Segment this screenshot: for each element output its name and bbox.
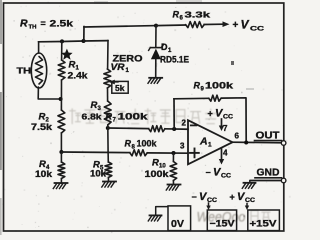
svg-text:100k: 100k [145,169,170,179]
resistor R3 [104,101,111,125]
wire D1-junction to R6 [156,24,186,27]
svg-text:2.4k: 2.4k [68,71,89,81]
terminal box -15V [207,210,236,231]
ground 0V [150,214,162,216]
svg-text:VR: VR [111,62,125,73]
plus sign pin3 [190,152,199,154]
wire R10 to ground [172,181,174,185]
svg-text:6.8k: 6.8k [82,112,102,122]
wire R7 left [108,127,149,130]
minus sign pin2 [191,124,197,126]
wire R6 to arrow [204,23,222,25]
op-amp A1 [188,120,233,164]
svg-text:TH: TH [17,66,32,76]
svg-text:+: + [233,20,239,31]
zener diode D1 [151,49,161,60]
thermistor TH [31,53,46,88]
resistor R4 [58,162,65,179]
svg-text:R: R [91,100,98,111]
terminal box +15V [248,210,280,231]
wire D1 to ground [155,59,157,77]
svg-text:2: 2 [182,119,187,128]
wire R7 to pin2 [165,128,188,130]
wire R4 to ground [60,179,62,183]
watermark bottom [197,209,271,225]
resistor R8 [130,150,148,156]
wire pin3 left [61,151,129,154]
svg-text:CC: CC [250,25,264,32]
node step junction [82,39,86,43]
svg-text:R: R [106,112,113,122]
wire R5 to ground [107,178,109,182]
wire R1 to R2 [60,80,62,110]
resistor R6 [186,22,205,28]
wire R5 top lead [107,152,109,162]
svg-text:R: R [125,139,132,149]
wire thermistor bottom [38,87,61,99]
svg-text:WeeQoo: WeeQoo [197,209,246,225]
svg-text:RD5.1E: RD5.1E [160,55,189,65]
wire R9 top right [221,98,246,143]
svg-text:3: 3 [180,142,185,151]
VR1 wiper arrow [112,81,119,83]
wire upper horizontal to D1 [84,26,156,27]
svg-text:TH: TH [29,24,37,30]
wire VR1 to R3 [107,88,109,101]
svg-text:0V: 0V [171,219,184,230]
svg-text:+: + [208,109,213,119]
svg-text:R: R [39,112,46,123]
svg-text:V: V [241,17,250,31]
VR1 5k box [112,81,128,93]
svg-text:2.5k: 2.5k [50,19,75,29]
svg-text:A: A [199,136,208,148]
node R3-R7 junction [106,126,110,130]
ground R10 [168,184,181,186]
svg-text:5k: 5k [115,83,125,93]
pin 7 arrow [221,119,223,126]
node output junction [244,141,248,145]
wire R9 up [173,99,175,129]
svg-text:+: + [230,192,235,202]
resistor R9 [209,95,221,101]
ground D1 [149,77,162,79]
terminal box 0V [168,206,191,231]
wire R2 to junction [60,133,62,152]
node R1 top junction [60,39,64,43]
resistor R5 [105,162,112,178]
svg-text:1: 1 [208,142,212,149]
wire D1 top lead [155,26,157,47]
resistor R2 [58,110,65,133]
svg-text:6: 6 [235,132,240,141]
svg-text:100k: 100k [205,81,234,91]
svg-text:−: − [192,192,197,202]
svg-text:4: 4 [223,149,228,158]
wire output [233,141,283,144]
potentiometer VR1 [104,69,111,88]
wire -15V arrow [208,203,210,207]
ground GND net [249,181,251,183]
svg-text:R: R [173,10,180,20]
svg-text:R: R [69,60,76,71]
svg-text:GND: GND [257,168,280,179]
svg-text:−: − [206,168,211,178]
svg-text:10k: 10k [90,169,107,179]
star mark [61,49,72,60]
svg-text:7.5k: 7.5k [31,122,53,132]
svg-text:R: R [20,18,28,30]
svg-text:CC: CC [223,115,234,121]
svg-text:100k: 100k [118,112,149,122]
terminal OUT [281,141,286,146]
svg-text:10k: 10k [35,169,53,179]
arrow to +Vcc [223,21,230,27]
svg-text:100k: 100k [137,139,158,149]
wire VR1 top lead [107,41,109,69]
wire R4 top lead [60,152,62,162]
svg-text:=: = [41,19,46,29]
resistor R1 [58,60,65,80]
wire R8 to pin3 [147,152,188,154]
wire step up [83,27,85,41]
OUT underline [255,140,282,142]
node R2-R4 junction [59,150,63,154]
wire R9 top left [174,97,209,100]
wire top-left horizontal [39,41,109,42]
resistor R10 [170,162,177,181]
svg-text:R: R [152,158,159,169]
watermark middle [70,109,216,124]
wire GND [251,180,282,182]
0V ground wire [156,207,168,216]
svg-text:D: D [161,42,168,52]
resistor R7 [149,126,165,132]
svg-text:3.3k: 3.3k [185,9,211,19]
wire thermistor top [38,42,40,53]
svg-text:CC: CC [221,174,232,180]
wire R1 top lead [61,42,63,61]
svg-text:R: R [194,81,201,91]
node pin2 junction [172,127,176,131]
ground R4 [55,182,68,184]
terminal GND [281,178,286,183]
pin 4 arrow [221,149,223,161]
wire R10 top lead [172,153,174,162]
ground R5 [103,181,116,183]
wire +15V arrow [246,204,248,207]
node thermistor-R1 junction [59,97,63,101]
wire R3 to cross [107,125,109,152]
svg-text:7: 7 [223,124,228,133]
node D1 junction [154,24,158,28]
GND underline [255,177,282,179]
node R10 junction [172,151,176,155]
